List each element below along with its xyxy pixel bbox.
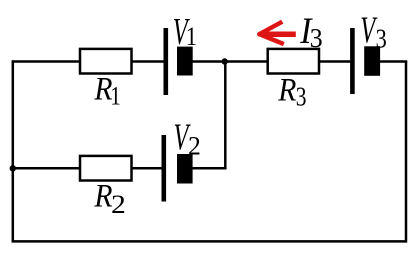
svg-text:R: R [277, 71, 296, 108]
svg-text:R: R [93, 177, 112, 214]
svg-text:3: 3 [296, 82, 307, 112]
node B junction dot (left rail / middle row) [10, 165, 16, 171]
label I3 [299, 9, 322, 53]
wire: battery V1 to node A [191, 60, 226, 63]
battery V3 long plate (positive) [350, 28, 355, 94]
wire: battery V2 right horizontal [191, 167, 227, 170]
current arrow I3 (red, pointing left) [259, 22, 296, 44]
svg-text:2: 2 [188, 131, 201, 160]
wire: top-right from right rail to battery V3 [378, 60, 407, 63]
label R2 [93, 177, 125, 219]
svg-text:3: 3 [376, 25, 387, 55]
battery V2 long plate (positive) [162, 135, 167, 202]
node A junction dot (V1/R3/V2 riser) [222, 58, 228, 64]
wire: vertical riser from V2 branch up to node A [224, 62, 227, 170]
svg-text:1: 1 [186, 22, 197, 51]
label V1 [173, 10, 197, 52]
label V2 [174, 116, 201, 160]
battery V3 short plate (negative) [364, 46, 380, 76]
wire: bottom rail [12, 240, 406, 243]
label R3 [277, 71, 306, 112]
wire: top-left horizontal from left rail to R1 [13, 60, 80, 63]
resistor R2 [80, 156, 132, 181]
wire: left rail to R2 (middle row) [13, 167, 81, 170]
wire: node A to R3 [224, 60, 269, 63]
battery V1 long plate (positive) [164, 28, 169, 95]
wire: left vertical rail [12, 60, 15, 241]
label V3 [360, 9, 386, 54]
battery V1 short plate (negative) [177, 47, 193, 76]
svg-text:1: 1 [110, 83, 121, 112]
wire: R3 to battery V3 [318, 60, 353, 63]
wire: R1 to battery V1 [131, 60, 167, 63]
resistor R1 [80, 49, 132, 74]
svg-text:2: 2 [111, 190, 126, 219]
battery V2 short plate (negative) [177, 154, 193, 184]
wire: right vertical rail [405, 62, 408, 243]
wire: R2 to battery V2 [131, 167, 165, 170]
resistor R3 [268, 49, 319, 74]
label R1 [93, 70, 120, 111]
